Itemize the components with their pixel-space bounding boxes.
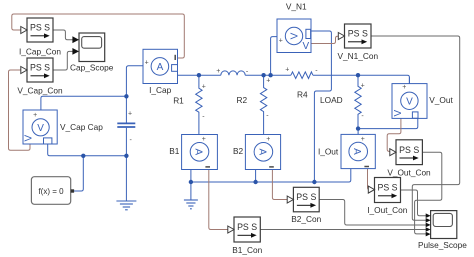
svg-text:Pulse_Scope: Pulse_Scope (418, 240, 467, 250)
svg-text:+: + (128, 110, 132, 117)
svg-text:V_Out: V_Out (429, 95, 453, 105)
svg-text:+: + (285, 67, 289, 74)
svg-text:+: + (361, 136, 365, 143)
svg-text:V_Cap_Con: V_Cap_Con (17, 85, 63, 95)
svg-text:+: + (266, 77, 270, 84)
svg-text:V_Cap Cap: V_Cap Cap (60, 122, 103, 132)
svg-text:A: A (256, 148, 267, 155)
svg-text:LOAD: LOAD (320, 95, 343, 105)
svg-text:B2: B2 (233, 146, 244, 156)
svg-text:PS S: PS S (399, 145, 419, 155)
svg-text:+: + (33, 112, 37, 119)
svg-text:R1: R1 (173, 95, 184, 105)
svg-text:+: + (216, 68, 220, 75)
svg-text:+: + (402, 84, 406, 91)
svg-text:B1_Con: B1_Con (232, 245, 262, 255)
svg-text:PS S: PS S (237, 222, 257, 232)
svg-text:A: A (193, 148, 204, 155)
svg-text:+: + (279, 37, 283, 44)
svg-text:+: + (361, 83, 365, 90)
svg-text:f(x) = 0: f(x) = 0 (38, 187, 64, 196)
svg-text:PS S: PS S (377, 183, 397, 193)
svg-text:Cap_Scope: Cap_Scope (70, 62, 114, 72)
svg-text:PS S: PS S (30, 63, 50, 73)
svg-text:V: V (24, 135, 35, 142)
svg-text:R2: R2 (236, 95, 247, 105)
svg-text:R4: R4 (297, 89, 308, 99)
svg-text:I_Out_Con: I_Out_Con (367, 205, 408, 215)
svg-text:V: V (290, 32, 301, 39)
svg-text:PS S: PS S (296, 192, 316, 202)
svg-text:A: A (351, 148, 362, 155)
svg-text:V_Out_Con: V_Out_Con (387, 167, 431, 177)
svg-text:V_N1_Con: V_N1_Con (338, 51, 379, 61)
svg-text:A: A (157, 62, 164, 73)
svg-text:PS S: PS S (348, 29, 368, 39)
svg-text:V: V (406, 96, 413, 107)
svg-text:PS S: PS S (30, 23, 50, 33)
svg-text:V: V (37, 123, 44, 134)
svg-text:I_Cap: I_Cap (149, 85, 172, 95)
svg-text:+: + (202, 83, 206, 90)
svg-text:B1: B1 (169, 146, 180, 156)
svg-text:B2_Con: B2_Con (291, 214, 321, 224)
svg-text:I_Out: I_Out (318, 147, 339, 157)
svg-text:V: V (393, 110, 404, 117)
svg-text:V: V (303, 41, 310, 52)
svg-text:I_Cap_Con: I_Cap_Con (19, 46, 61, 56)
svg-text:+: + (202, 136, 206, 143)
svg-text:+: + (266, 136, 270, 143)
svg-text:V_N1: V_N1 (286, 1, 307, 11)
svg-text:+: + (145, 59, 149, 66)
